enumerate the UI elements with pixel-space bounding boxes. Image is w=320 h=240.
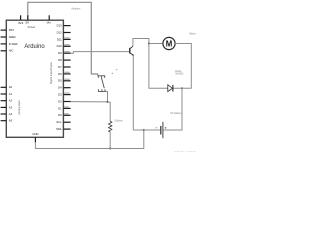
svg-text:3V3: 3V3 <box>18 21 24 25</box>
svg-text:Analog Input: Analog Input <box>17 100 21 115</box>
transistor Q1 emitter arrow <box>132 54 134 56</box>
node B <box>109 147 111 149</box>
left pins RST AREF IOREF N/C <box>1 30 7 51</box>
transistor Q1 <box>130 46 133 55</box>
arduino U1 symbol box <box>6 20 63 137</box>
svg-text:SDA: SDA <box>56 127 62 131</box>
svg-text:9V battery: 9V battery <box>170 112 182 115</box>
pin number labels PWM TX RX <box>64 37 69 114</box>
pin 5V <box>27 15 29 20</box>
svg-text:A5: A5 <box>9 119 13 123</box>
svg-text:GND: GND <box>32 132 38 136</box>
wire D2 to button/resistor node <box>71 101 108 103</box>
wire D9 to transistor base <box>71 52 130 54</box>
svg-text:RST: RST <box>9 28 15 32</box>
svg-text:D4: D4 <box>58 86 62 90</box>
svg-text:Motor: Motor <box>189 31 196 35</box>
text top labels <box>18 21 51 29</box>
svg-text:D0: D0 <box>58 113 62 117</box>
wire motor loop left vertical <box>149 44 168 89</box>
svg-text:D5: D5 <box>58 79 62 83</box>
wire GND run <box>35 130 143 148</box>
wire node to resistor <box>108 102 111 121</box>
svg-text:D10: D10 <box>57 44 62 48</box>
svg-text:A4: A4 <box>9 112 13 116</box>
svg-text:Arduino: Arduino <box>24 43 45 50</box>
wire 5V rail to switch <box>28 2 98 76</box>
svg-text:AREF: AREF <box>9 35 17 39</box>
node D <box>181 87 183 89</box>
svg-text:Digital Input/Output: Digital Input/Output <box>49 62 53 84</box>
svg-text:5V: 5V <box>25 21 29 25</box>
svg-text:Power: Power <box>28 25 36 29</box>
svg-text:D11: D11 <box>57 37 62 41</box>
svg-text:SCL: SCL <box>56 120 62 124</box>
speck near button <box>112 73 114 75</box>
text pin labels left <box>9 28 18 123</box>
svg-text:IO REF: IO REF <box>9 42 18 46</box>
left pins A0-A5 <box>1 87 7 120</box>
pin Vin <box>48 15 50 20</box>
svg-text:D2: D2 <box>58 99 62 103</box>
svg-text:D9: D9 <box>58 51 62 55</box>
pin GND stub <box>34 137 36 142</box>
svg-text:D12: D12 <box>57 30 62 34</box>
diode D1 <box>168 85 173 92</box>
svg-text:N/C: N/C <box>9 49 14 53</box>
svg-text:M: M <box>166 40 173 49</box>
svg-text:A0: A0 <box>9 85 13 89</box>
text pin labels right <box>56 24 62 132</box>
pushbutton S1 <box>98 76 106 92</box>
svg-text:Vin: Vin <box>47 21 52 25</box>
svg-text:D1: D1 <box>58 106 62 110</box>
svg-text:1N4001: 1N4001 <box>175 72 184 75</box>
motor M1 <box>163 37 175 49</box>
node C <box>143 129 145 131</box>
svg-text:D7: D7 <box>58 65 62 69</box>
right pins D13-D0 SCL SDA <box>63 26 70 130</box>
wire battery plus to diode node <box>163 88 182 130</box>
battery polarity marks <box>155 127 166 129</box>
wire emitter to ground node <box>133 55 144 130</box>
resistor R1 <box>108 121 112 131</box>
battery BT1 <box>161 122 163 138</box>
svg-text:D6: D6 <box>58 72 62 76</box>
wire to motor left <box>149 43 163 45</box>
svg-text:A2: A2 <box>9 99 13 103</box>
pin 3V3 <box>20 15 22 20</box>
svg-text:A1: A1 <box>9 92 13 96</box>
wire switch bottom to node <box>105 91 108 102</box>
wire motor right to loop <box>173 44 191 89</box>
node E <box>148 43 150 45</box>
wire node to battery minus <box>144 129 161 131</box>
svg-text:D3: D3 <box>58 93 62 97</box>
svg-text:10kohm: 10kohm <box>114 119 123 122</box>
svg-text:A3: A3 <box>9 105 13 109</box>
node A <box>107 101 109 103</box>
wire collector to motor <box>133 39 149 47</box>
svg-text:D13: D13 <box>57 24 62 28</box>
speck near transistor <box>116 69 117 70</box>
wire resistor to ground run <box>109 132 111 149</box>
svg-text:D8: D8 <box>58 58 62 62</box>
svg-text:Arduino: Arduino <box>71 7 80 11</box>
